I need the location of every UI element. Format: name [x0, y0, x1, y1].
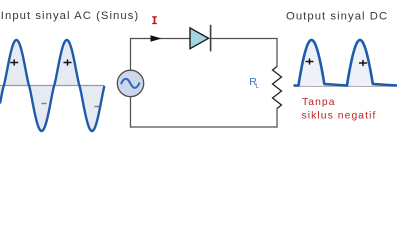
- wire: left vertical (source to top wire): [130, 39, 132, 71]
- wire: bottom horizontal: [130, 126, 278, 128]
- diode D1 triangle: [190, 28, 209, 49]
- current arrow on top wire: [151, 35, 162, 42]
- output DC rectified waveform: [294, 40, 398, 86]
- wire: right vertical upper (to resistor): [276, 38, 278, 67]
- wire: right vertical lower (resistor to bottom wire): [276, 108, 278, 128]
- plus sign output hump 1: [306, 58, 314, 64]
- minus sign input trough 1: [42, 103, 47, 105]
- plus sign output hump 2: [359, 60, 367, 66]
- output waveform fill: [299, 40, 373, 86]
- svg-text:Output sinyal DC: Output sinyal DC: [286, 10, 388, 22]
- svg-text:Input sinyal AC (Sinus): Input sinyal AC (Sinus): [1, 10, 139, 22]
- AC source V1 sine symbol: [121, 79, 139, 88]
- label: current I: [152, 17, 157, 24]
- minus sign input trough 2: [95, 106, 100, 108]
- svg-text:Tanpa: Tanpa: [302, 97, 336, 108]
- svg-text:L: L: [256, 84, 260, 90]
- output waveform axis: [294, 85, 397, 87]
- svg-text:siklus negatif: siklus negatif: [302, 110, 377, 121]
- plus sign input hump 2: [64, 59, 72, 65]
- diode D1 cathode bar: [210, 25, 212, 52]
- AC source V1 circle: [117, 70, 143, 96]
- input waveform axis: [0, 85, 105, 87]
- input AC sine waveform: [0, 40, 104, 131]
- wire: left vertical lower (bottom wire to source): [130, 97, 132, 128]
- wire: top horizontal left segment: [130, 38, 190, 40]
- resistor RL zigzag: [273, 67, 282, 109]
- wire: top horizontal right segment: [211, 38, 278, 40]
- input waveform fill: [0, 40, 105, 131]
- plus sign input hump 1: [10, 59, 18, 65]
